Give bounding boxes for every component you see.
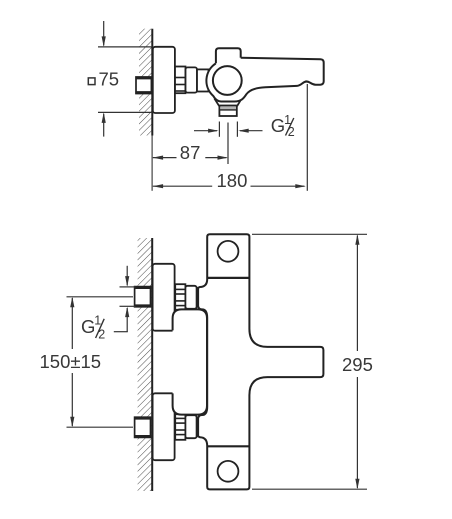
extension line at spout end for 180 <box>306 84 308 191</box>
svg-text:180: 180 <box>217 170 248 191</box>
svg-text:G: G <box>81 316 95 337</box>
top outlet hole circle (front view) <box>218 241 239 262</box>
wall escutcheon plate (top view) <box>153 47 175 113</box>
lower union nut (front view) <box>175 414 185 440</box>
upper wall escutcheon plate (front view) <box>153 264 175 331</box>
upper connector sleeve (front view) <box>185 286 196 309</box>
dimension "square 75" vertical arrows <box>102 21 106 137</box>
mixer body and spout outline (top view) <box>206 58 323 102</box>
bottom outlet hole circle (front view) <box>218 461 239 482</box>
diverter knob on top (top view) <box>216 48 241 63</box>
dimension 150±15 extension lines <box>67 296 134 298</box>
dimension G1/2 extension lines (top view) <box>218 122 220 137</box>
connector neck (top view) <box>197 69 209 91</box>
spout waterfall lip notch (top view) <box>301 81 313 85</box>
wall hatching (top view) <box>139 29 152 136</box>
upper union nut (front view) <box>175 284 185 310</box>
wall face line (front view) <box>151 238 153 491</box>
svg-text:150±15: 150±15 <box>40 351 102 372</box>
lower connector sleeve (front view) <box>185 415 196 438</box>
dimension "square 75" extension lines <box>98 46 153 48</box>
dimension G1/2 extension lines (front view) <box>120 286 136 288</box>
wall face line (top view) <box>151 29 153 136</box>
label G1/2 (top view) <box>271 113 295 139</box>
top block divider line (front view) <box>207 277 249 279</box>
dimension 295 line and arrows <box>355 234 359 489</box>
dimension G1/2 arrows (front view) <box>114 266 130 332</box>
thermostat knob circle (top view) <box>213 66 242 95</box>
dimension G1/2 arrows (top view) <box>194 129 263 133</box>
concealed supply square fitting (top view) <box>135 77 152 94</box>
cartridge housing behind body (front view) <box>173 309 207 414</box>
square symbol of dimension 75 <box>88 78 95 85</box>
lower concealed supply square fitting (front view) <box>134 417 151 437</box>
dimension 87 line and arrows <box>153 156 228 160</box>
wall hatching (front view) <box>138 238 153 491</box>
svg-text:75: 75 <box>99 68 120 89</box>
lower wall escutcheon plate (front view) <box>153 393 175 460</box>
upper concealed supply square fitting (front view) <box>134 287 151 307</box>
dimension 180 line and arrows <box>153 184 306 188</box>
svg-text:2: 2 <box>98 328 105 342</box>
svg-text:2: 2 <box>288 125 295 139</box>
svg-text:295: 295 <box>342 354 373 375</box>
svg-text:G: G <box>271 115 285 136</box>
label G1/2 (front view) <box>81 314 105 342</box>
dimension 295 extension lines <box>252 233 367 235</box>
connector sleeve (top view) <box>186 67 198 92</box>
bottom block divider line (front view) <box>207 445 249 447</box>
main body T silhouette (front view) <box>198 234 323 489</box>
union nut (top view) <box>175 67 186 94</box>
stub center line (top view) <box>227 123 229 165</box>
svg-text:1: 1 <box>94 314 101 328</box>
svg-text:87: 87 <box>180 142 201 163</box>
shower outlet stub with G1/2 thread (top view) <box>215 100 241 116</box>
dimension 150±15 line and arrows <box>70 297 74 427</box>
wall face extension line down to dimensions <box>151 136 153 191</box>
